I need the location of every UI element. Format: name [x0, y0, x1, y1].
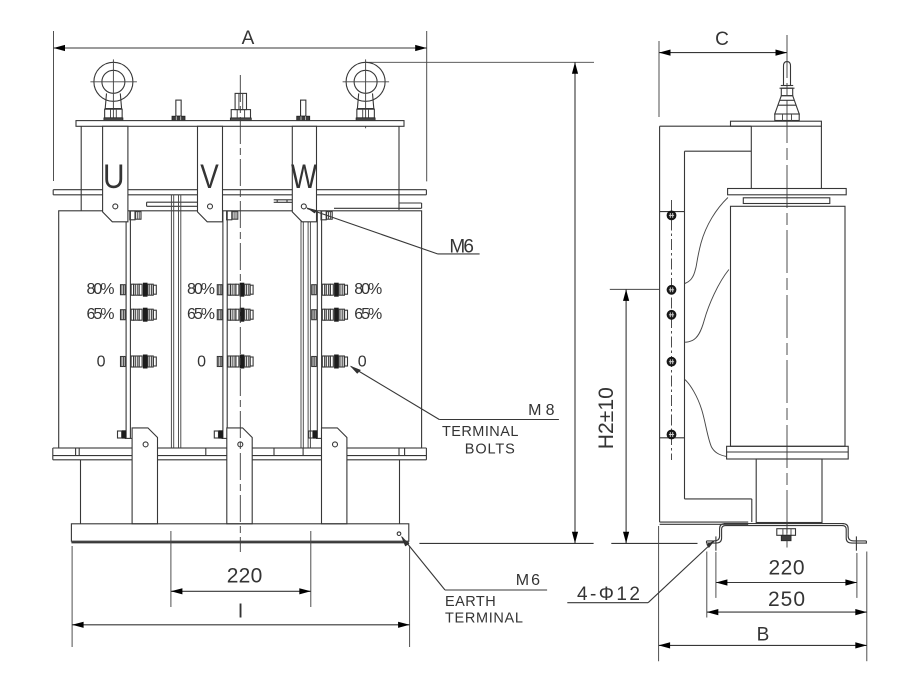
- upper flange: [728, 189, 847, 195]
- stud left: [172, 100, 185, 122]
- eyebolt right: [343, 59, 390, 128]
- dimension I: [72, 546, 410, 647]
- link bar V-W: [274, 200, 293, 203]
- svg-text:0: 0: [358, 354, 367, 371]
- dimension 250: [707, 552, 867, 662]
- svg-text:TERMINAL: TERMINAL: [442, 424, 518, 440]
- upper yoke sides: [81, 126, 399, 211]
- svg-text:250: 250: [768, 588, 805, 611]
- top M6 bolt V: [217, 211, 238, 220]
- svg-text:0: 0: [97, 354, 106, 371]
- base center bolt: [777, 529, 796, 541]
- bottom bolt U: [118, 430, 127, 438]
- earth terminal hole: [397, 532, 401, 536]
- base hat profile: [707, 524, 867, 551]
- phase plate W: [291, 126, 317, 222]
- stud right: [297, 100, 310, 122]
- coil cylinder: [731, 206, 846, 446]
- tap labels U: [87, 281, 115, 370]
- svg-text:4-Φ12: 4-Φ12: [577, 584, 640, 605]
- second flange plate: [743, 198, 830, 204]
- bottom bolt V: [214, 430, 223, 438]
- mounting foot W: [322, 428, 347, 524]
- stud center: [230, 93, 251, 121]
- cylinder bottom flange: [727, 446, 849, 459]
- dimension A: [54, 28, 427, 181]
- top M6 bolt U: [121, 211, 142, 220]
- cable 3: [685, 380, 727, 457]
- frame bolt dots column: [667, 200, 677, 460]
- mounting foot V: [227, 428, 252, 524]
- svg-text:BOLTS: BOLTS: [465, 441, 515, 457]
- tap bar W: [316, 211, 323, 439]
- terminal bolts W 80%: [312, 283, 348, 297]
- leader and label M6 EARTH TERMINAL: [401, 536, 547, 626]
- terminal bolts U 80%: [121, 283, 157, 297]
- mounting foot U: [132, 428, 157, 524]
- phase plate U: [103, 126, 128, 222]
- terminal bolts V 0: [217, 355, 253, 369]
- terminal bolts V 65%: [217, 308, 253, 322]
- dimension H2±10: [595, 289, 659, 543]
- overall height dimension line (right of front view): [366, 62, 594, 543]
- terminal bolts W 0: [312, 355, 348, 369]
- cable 2: [685, 270, 729, 343]
- tap labels W: [354, 281, 382, 370]
- svg-text:W: W: [291, 158, 317, 196]
- base channel: [71, 524, 408, 543]
- svg-text:65%: 65%: [354, 306, 382, 323]
- svg-text:H2±10: H2±10: [595, 387, 618, 449]
- leader and label M6 (top): [306, 207, 480, 257]
- main body (core and coils front): [59, 211, 422, 448]
- svg-text:M6: M6: [516, 572, 540, 589]
- centerline front view: [239, 75, 241, 552]
- svg-text:I: I: [238, 601, 244, 623]
- bottom rail: [53, 448, 427, 460]
- svg-text:65%: 65%: [87, 306, 115, 323]
- svg-text:B: B: [757, 625, 770, 646]
- terminal bolts U 0: [121, 355, 157, 369]
- bottom bolt W: [309, 430, 318, 438]
- svg-text:TERMINAL: TERMINAL: [445, 610, 523, 626]
- dimension C: [659, 29, 787, 117]
- eyebolt left: [90, 59, 136, 128]
- terminal bolts V 80%: [217, 283, 253, 297]
- svg-text:80%: 80%: [354, 281, 382, 298]
- link line right of W: [334, 203, 422, 208]
- svg-text:EARTH: EARTH: [445, 594, 496, 610]
- side centerline: [786, 35, 788, 548]
- svg-text:220: 220: [227, 565, 263, 588]
- svg-text:220: 220: [769, 557, 805, 580]
- dimension B: [659, 526, 867, 661]
- dimension 220 front: [171, 531, 311, 607]
- dimension 220 side: [716, 552, 857, 598]
- leader and label M8 TERMINAL BOLTS: [350, 366, 559, 458]
- terminal bolts W 65%: [312, 308, 348, 322]
- svg-text:V: V: [200, 158, 219, 196]
- top M6 bolt W: [312, 211, 333, 220]
- tap labels V: [187, 281, 215, 370]
- svg-text:80%: 80%: [87, 281, 115, 298]
- svg-text:U: U: [103, 158, 125, 196]
- riser box: [751, 126, 821, 188]
- tap bar V: [222, 211, 229, 439]
- svg-text:80%: 80%: [187, 281, 215, 298]
- lower yoke sides: [81, 460, 400, 524]
- side frame profile: [660, 126, 752, 524]
- svg-text:M8: M8: [528, 402, 554, 419]
- side top plate: [731, 121, 822, 126]
- svg-text:0: 0: [197, 354, 206, 371]
- rail upper: [53, 190, 426, 195]
- cable 1: [685, 198, 728, 284]
- svg-text:C: C: [715, 29, 729, 50]
- svg-text:65%: 65%: [187, 306, 215, 323]
- coil gap lines U-V: [171, 195, 180, 448]
- link bar U-V: [147, 202, 198, 206]
- top plate: [76, 121, 404, 127]
- terminal bolts U 65%: [121, 308, 157, 322]
- bushing terminal: [775, 62, 799, 121]
- bottom support block: [756, 459, 822, 523]
- phase plate V: [198, 126, 223, 222]
- svg-text:M6: M6: [449, 237, 474, 258]
- tap bar U: [125, 211, 132, 439]
- svg-text:A: A: [242, 28, 255, 49]
- ground line between views: [419, 542, 697, 544]
- label 4-Φ12 with leader: [567, 540, 715, 605]
- coil gap lines V-W: [301, 195, 310, 448]
